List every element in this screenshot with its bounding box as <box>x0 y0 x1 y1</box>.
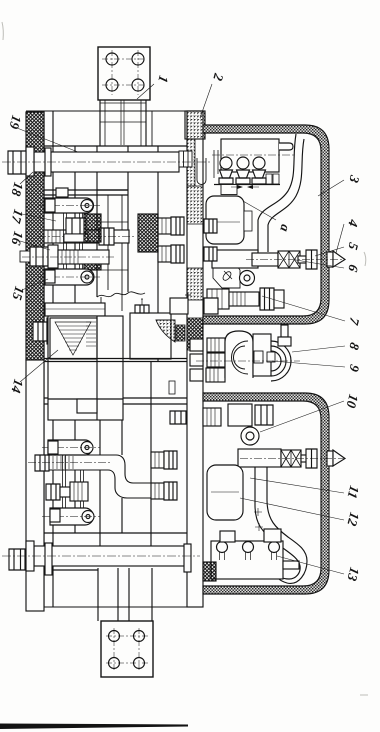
base hex left <box>221 185 237 195</box>
plate top block <box>185 111 205 139</box>
ram body upper <box>128 146 158 362</box>
leader 13 <box>277 556 344 574</box>
body rail y570 <box>44 569 98 571</box>
hex nut <box>9 549 25 570</box>
leader 6 <box>296 260 344 268</box>
hex <box>255 405 273 425</box>
valve b1 <box>217 542 228 561</box>
pad notch <box>244 211 252 231</box>
vertical plate x75 <box>74 146 76 533</box>
base feet right <box>266 174 272 184</box>
valve block bottom <box>211 541 283 579</box>
leader a <box>243 201 276 220</box>
plate hatch left strip <box>187 139 195 186</box>
plate 18 hatched <box>26 112 44 360</box>
ram break squiggle <box>97 292 145 297</box>
screw blocks <box>254 351 263 363</box>
stud washer <box>64 234 88 242</box>
bolt below <box>33 318 57 344</box>
leader 9 <box>272 361 345 367</box>
leader 18 <box>20 172 33 184</box>
body rail y533 <box>44 532 188 534</box>
body rail y146 <box>44 145 188 147</box>
wedge block <box>130 313 171 359</box>
plate hatch segment 1 <box>187 186 203 224</box>
washer <box>26 147 34 176</box>
washer stack 1 <box>207 338 225 352</box>
hatched chip <box>176 325 185 341</box>
hole <box>132 79 144 91</box>
lever lower <box>255 467 307 583</box>
leader 12 <box>240 498 344 520</box>
pad centerline <box>210 221 240 223</box>
wire top rail <box>26 110 188 112</box>
flange <box>45 543 52 575</box>
Z-link centerline <box>28 462 110 464</box>
body rail y404 <box>44 403 188 405</box>
bolt assembly lower <box>207 288 284 310</box>
lower ram tab <box>169 381 175 394</box>
washer stack top <box>203 408 221 426</box>
valve base line <box>214 184 280 186</box>
body rail y195 <box>44 194 128 196</box>
hole <box>109 658 120 669</box>
leader 3 <box>318 180 344 196</box>
leader 4 <box>336 224 344 253</box>
lever (swan neck) <box>258 134 304 252</box>
wedge block hex bolt <box>135 305 149 313</box>
hatch blocks beside ram <box>138 214 158 252</box>
right side bolts near plate <box>151 411 186 500</box>
body inner verticals <box>101 195 122 316</box>
rod with turnbuckle top <box>246 250 345 269</box>
top column <box>100 100 146 146</box>
cylinder centerline <box>212 154 296 156</box>
wire bottom rail <box>26 606 203 608</box>
dome <box>225 331 253 378</box>
hole <box>134 631 145 642</box>
leader 16 <box>20 241 50 250</box>
hole <box>132 53 144 65</box>
plate hatch segment 3 <box>187 318 203 350</box>
hole <box>106 79 118 91</box>
pivot circle <box>240 271 255 286</box>
hex nut <box>8 151 26 174</box>
lever arm horizontal <box>238 449 281 467</box>
valve 2 <box>236 157 250 184</box>
bolt across plate y300 <box>170 298 188 314</box>
link arm 2 <box>38 269 100 285</box>
Z-link band <box>49 455 176 498</box>
arcs hook <box>271 341 291 381</box>
leader 2 <box>200 84 212 118</box>
body rail y398 <box>44 397 188 399</box>
horseshoe clamp <box>233 346 245 369</box>
crosshatch bushing <box>84 214 101 242</box>
divider <box>48 316 123 420</box>
stem bolt <box>281 325 288 337</box>
shaft 19 <box>2 147 210 176</box>
stirrup bars lower <box>63 455 84 508</box>
pivot circle <box>241 427 259 445</box>
upper plate bolts <box>158 217 218 314</box>
centerline <box>2 555 200 557</box>
rounded pad <box>206 196 244 244</box>
washer stack 3 <box>206 368 225 382</box>
mounting plate body <box>187 111 203 607</box>
hole <box>134 658 145 669</box>
centerline <box>2 161 210 163</box>
valve 3 <box>252 157 266 184</box>
leader 7 <box>262 296 345 321</box>
rod with turnbuckle bottom <box>240 449 345 468</box>
bottom plate <box>101 621 153 677</box>
valve b2 <box>243 542 254 561</box>
coil ticks <box>86 322 96 346</box>
body rail y190 <box>44 189 128 191</box>
column inner walls <box>105 100 141 146</box>
pipe U-bend <box>197 158 206 185</box>
bellcrank arm <box>212 250 258 268</box>
leader 15 <box>22 279 48 290</box>
cylinder block <box>221 139 279 172</box>
left pipe <box>214 150 218 178</box>
bottom scan bar <box>0 724 188 730</box>
hole <box>109 631 120 642</box>
block <box>228 404 252 426</box>
hex small 3 <box>190 369 203 381</box>
leader 1 <box>137 84 154 99</box>
Z-link thread ticks <box>53 456 73 469</box>
leader 8 <box>292 346 345 352</box>
t-bolt <box>56 188 68 197</box>
stirrup bars <box>64 213 83 269</box>
casing band <box>203 393 329 594</box>
right flange <box>184 544 191 572</box>
column slot <box>121 100 124 145</box>
cylinder stem <box>279 143 293 150</box>
leader 17 <box>22 214 56 221</box>
valve 1 <box>219 157 233 184</box>
plate hatch segment 2 <box>187 268 203 300</box>
plate lower white <box>26 360 44 611</box>
hole centerlines <box>106 628 148 672</box>
shaft end hex <box>179 151 192 167</box>
pivot bracket <box>213 262 240 288</box>
spring funnel <box>55 322 91 355</box>
column step line <box>100 121 146 123</box>
left plate edge 1 <box>43 111 45 607</box>
hex small 2 <box>190 354 203 366</box>
hatched block left <box>203 562 216 581</box>
washer stack 2 <box>207 353 225 367</box>
clamp centerline <box>196 360 300 362</box>
hex small 1 <box>190 339 203 351</box>
bolt + washers <box>46 482 88 501</box>
dim arrows <box>231 186 259 188</box>
hole <box>106 53 118 65</box>
mid rails <box>44 359 187 362</box>
leader 19 <box>17 128 78 152</box>
hex stud <box>66 218 86 234</box>
link arm 1 <box>38 198 100 213</box>
rounded pad lower <box>207 465 243 520</box>
cylinder <box>253 334 271 376</box>
hole centerlines <box>102 50 146 95</box>
leader 14 <box>20 350 58 382</box>
top plate <box>98 47 150 100</box>
link arm 4 <box>42 508 100 525</box>
casing 3 band <box>203 125 329 324</box>
Z-link hex head <box>35 455 49 471</box>
upper bolt row <box>38 228 135 245</box>
left plate edge 2 <box>52 111 54 607</box>
leader 5 <box>315 247 344 256</box>
bottom column <box>98 568 152 621</box>
hex small top1 <box>220 531 235 542</box>
link arm 3 <box>42 440 100 455</box>
leader 11 <box>250 478 344 493</box>
lever plus marks <box>254 508 263 531</box>
valve b3 <box>269 542 280 561</box>
ram head left <box>97 146 128 297</box>
stirrup bottom band <box>45 303 105 316</box>
big bolt 16 <box>20 245 115 268</box>
hex small top2 <box>264 529 281 542</box>
washer <box>26 541 34 571</box>
stem right <box>283 561 299 569</box>
lower ram <box>100 362 151 566</box>
pad centerline <box>211 491 239 493</box>
leader 10 <box>260 401 344 432</box>
flange <box>45 148 51 176</box>
hatched wedge <box>156 320 175 342</box>
